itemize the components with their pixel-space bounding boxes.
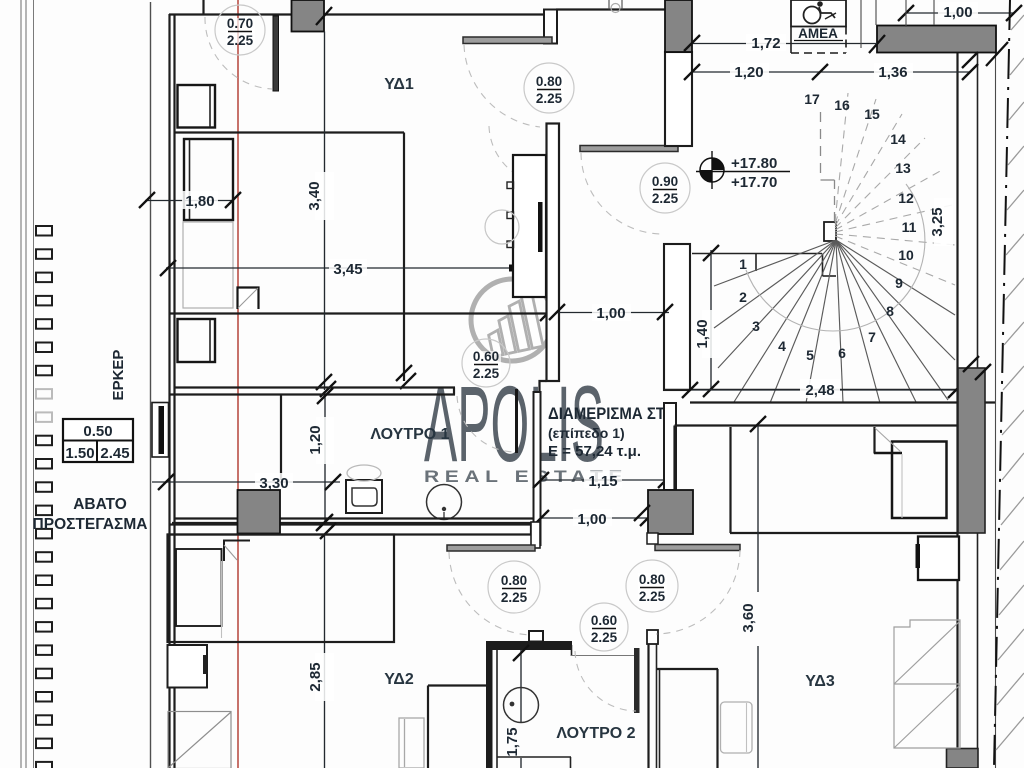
dim 1,00 hall width [549,304,673,322]
hatch dash-dot boundary [994,0,1010,768]
svg-text:5: 5 [806,347,814,363]
entry wall band right [665,52,692,146]
svg-text:3,60: 3,60 [740,603,757,632]
hall door swing arc small [489,126,546,184]
svg-text:1,00: 1,00 [596,305,625,322]
bath1 door leaf 0.60 [515,389,518,453]
ABATO PROSTEGASMA label [33,496,148,533]
svg-text:2,48: 2,48 [805,382,834,399]
svg-text:+17.80: +17.80 [731,155,777,172]
bedroom floor rect [169,133,551,382]
bed YD3 bottom [657,669,718,768]
double tick wall crossing x404 [396,365,416,389]
gray wall right middle [958,368,985,533]
YD2 corridor wall band [167,523,531,535]
entry top wall [556,8,665,10]
dim circle 0.60 low [580,603,628,651]
wardrobe square 1 [178,85,216,128]
svg-text:+17.70: +17.70 [731,174,777,191]
top wall stub at x203 [202,0,204,15]
svg-text:0.70: 0.70 [227,16,253,31]
stair newel post [824,222,836,241]
bed YD3 fold [874,427,902,518]
YD3 landing wall [675,426,958,490]
dim 1,15 [533,471,674,490]
bath1 inner wall stub [280,395,282,481]
dim 1,00 hall [533,509,656,528]
dim 2,85 vertical [307,515,336,768]
svg-text:1,75: 1,75 [504,727,521,756]
nightstand square below bed [178,319,216,362]
door jamb YD2 [531,522,540,548]
washing machine YD2 [168,645,208,688]
svg-text:APOLIS: APOLIS [424,363,604,484]
bath2 walls thick [486,631,572,768]
right wall lines [958,25,996,768]
svg-text:1: 1 [739,256,747,272]
bed YD1 lower part [183,222,233,308]
svg-text:14: 14 [890,131,906,147]
svg-text:2: 2 [739,289,747,305]
balcony railing posts [36,226,52,768]
svg-text:2.25: 2.25 [536,91,563,106]
bed fold corner [238,288,259,310]
YD2 door swing arc [449,552,534,635]
hatch lines neighbour building [996,15,1024,750]
svg-text:3,25: 3,25 [929,207,946,236]
svg-text:1,00: 1,00 [577,511,606,528]
tick end of line y313 [540,305,556,321]
window left wall erker [152,403,169,458]
gray column YD2 [238,490,281,534]
YD2 right lower wall [428,686,487,768]
dim circle 0.80 mid low [626,560,678,612]
svg-text:1,15: 1,15 [588,473,617,490]
svg-text:1,40: 1,40 [694,319,711,348]
stair landing edge [692,254,836,277]
svg-text:ΑΜΕΑ: ΑΜΕΑ [798,26,838,41]
nightstand YD3 [916,537,960,581]
building left wall [170,14,175,768]
stair dashed treads upper flight [835,93,955,285]
bath1 right wall band [534,392,541,545]
entry door jamb [544,10,557,44]
YD1 top wall [169,13,545,15]
entry door swing arc [581,153,661,234]
apartment label [548,404,666,460]
svg-text:1,72: 1,72 [751,35,780,52]
svg-text:ΛΟΥΤΡΟ 2: ΛΟΥΤΡΟ 2 [556,725,635,742]
svg-text:0.90: 0.90 [652,174,678,189]
canopy edge line [150,2,152,768]
svg-text:8: 8 [886,303,894,319]
svg-text:1,80: 1,80 [185,193,214,210]
stair solid treads [714,240,955,403]
svg-text:2,85: 2,85 [307,662,324,691]
door YD1 swing arc [205,17,272,89]
door swing arc YD1 right [464,45,540,127]
stair headroom dashed line [821,112,835,221]
bath1 top wall [169,388,455,395]
column entry [665,0,692,52]
svg-text:0.60: 0.60 [473,349,499,364]
bath2 inner faces [497,645,634,768]
svg-text:ΥΔ3: ΥΔ3 [805,673,835,690]
svg-text:0.80: 0.80 [501,573,527,588]
threshold bar hall/YD3 [655,545,740,551]
level marker +17.80/+17.70 [696,151,790,191]
svg-text:Ε = 57,24 τ.μ.: Ε = 57,24 τ.μ. [548,443,641,460]
top right gray wall [869,26,1008,67]
stair lower wall to column [664,403,676,490]
svg-text:2.25: 2.25 [639,589,666,604]
dim 1,80 [139,191,241,210]
svg-text:2.25: 2.25 [227,33,254,48]
canopy line left [33,0,35,768]
svg-text:0.60: 0.60 [591,613,617,628]
AMEA box [791,0,846,53]
closet shelf / open door YD1 right [463,37,552,44]
svg-text:1,00: 1,00 [943,4,972,21]
step numbers [739,91,917,363]
vent symbol top wall [609,0,622,13]
svg-text:ΔΙΑΜΕΡΙΣΜΑ ΣΤ: ΔΙΑΜΕΡΙΣΜΑ ΣΤ [548,404,666,423]
svg-text:2.25: 2.25 [473,366,500,381]
svg-text:ΛΟΥΤΡΟ 1: ΛΟΥΤΡΟ 1 [370,426,449,443]
svg-text:7: 7 [868,329,876,345]
YD2 closet [168,535,395,643]
svg-text:0.80: 0.80 [536,74,562,89]
dim extension x876 [875,0,877,25]
gray column hall [634,490,693,544]
threshold bar entry [580,146,678,152]
dim 3,25 vertical [929,52,991,380]
plot boundary line left double [21,0,26,768]
svg-text:3,45: 3,45 [333,261,362,278]
stair bottom edge lines [664,390,996,403]
sink bath1 [427,485,462,521]
dim circle 0.90/2.25 [640,163,690,213]
watermark logo circle [471,279,553,361]
red section line [237,0,239,768]
svg-text:2.25: 2.25 [501,590,528,605]
dim 1,00 top [898,0,1022,27]
dim circle 0.60/2.25 bath1 [462,339,510,387]
bath2 right jamb [647,630,658,768]
shower tray bath2 [497,757,571,768]
dim 1,72 [684,34,877,52]
stair walk line arc [746,184,925,331]
svg-text:1.50: 1.50 [65,445,94,462]
dim 1,75 vertical [504,645,529,768]
svg-text:ΥΔ2: ΥΔ2 [384,671,414,688]
svg-text:ΠΡΟΣΤΕΓΑΣΜΑ: ΠΡΟΣΤΕΓΑΣΜΑ [33,516,148,533]
dim circle 0.80/2.25 hall door [524,63,574,113]
dim circle 0.80 left low [488,561,540,613]
stair left wall band [664,244,690,390]
dim 1,40 vertical [694,245,720,397]
dimension table 0.50 / 1.50 2.45 [63,419,133,462]
pillow bottom bed [721,702,753,753]
svg-text:0.80: 0.80 [639,572,665,587]
svg-text:2.25: 2.25 [652,191,679,206]
svg-text:6: 6 [838,345,846,361]
gray wall right bottom [947,749,979,768]
svg-text:15: 15 [864,106,880,122]
door swing arc YD3 threshold [656,550,740,634]
wall notch to bath [540,381,547,392]
dim 1,36 top [812,63,978,81]
bed YD1 headboard [184,139,233,220]
bath2 door leaf [634,648,640,713]
svg-text:16: 16 [834,97,850,113]
bath1 bottom wall [169,519,533,525]
svg-text:9: 9 [895,275,903,291]
svg-text:10: 10 [898,247,914,263]
bed YD3 top [730,427,957,533]
bed YD3 pillow [892,442,947,519]
wall band YD1 / hall [547,124,560,382]
wardrobe YD3 [894,620,960,748]
svg-text:3: 3 [752,318,760,334]
toilet bath1 [346,465,382,513]
closet YD1 [507,155,546,297]
svg-text:17: 17 [804,91,820,107]
svg-text:3,40: 3,40 [306,181,323,210]
svg-text:2.45: 2.45 [100,445,129,462]
svg-text:1,20: 1,20 [307,425,324,454]
svg-text:1,20: 1,20 [734,64,763,81]
dim 3,60 vertical [740,416,766,768]
svg-text:ΥΔ1: ΥΔ1 [384,76,414,93]
svg-text:ΕΡΚΕΡ: ΕΡΚΕΡ [110,350,127,401]
dim 3,40 vertical [306,32,336,398]
svg-text:1,36: 1,36 [878,64,907,81]
bath1 door swing [457,396,515,452]
shaft with diagonal bottom left [168,712,231,768]
svg-text:0.50: 0.50 [83,423,112,440]
sink bath2 [504,688,539,723]
dim 1,20 top [684,63,820,81]
shelf / open door YD2 [447,545,535,551]
svg-text:13: 13 [895,160,911,176]
svg-text:(επίπεδο 1): (επίπεδο 1) [548,425,625,441]
door YD1 leaf (0.70) [273,16,279,91]
dim line extension x861 [860,0,862,48]
column top YD1 [292,0,333,32]
dim 3,30 [152,473,341,492]
svg-text:ΑΒΑΤΟ: ΑΒΑΤΟ [73,496,127,513]
washing machine bath2 [399,718,424,768]
dim 2,48 [682,379,964,399]
dim 1,20 vertical [307,388,334,530]
dim circle 0.70/2.25 [215,5,265,55]
svg-text:12: 12 [898,190,914,206]
knob circle light [485,210,519,244]
dim 3,45 [160,259,552,278]
bath2 door swing [575,651,636,711]
svg-text:4: 4 [778,338,786,354]
svg-text:2.25: 2.25 [591,630,618,645]
svg-text:11: 11 [902,219,917,235]
